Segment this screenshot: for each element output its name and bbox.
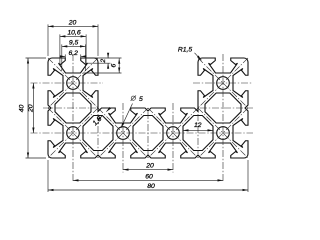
cell diagonal centerline 9 [98, 108, 148, 158]
hole d5 at (123,133) [117, 127, 130, 140]
hole d5 at (73,83) [67, 77, 80, 90]
cell diagonal centerline 1 [48, 58, 98, 108]
svg-text:10,6: 10,6 [67, 30, 80, 37]
cavity octagon (70,20) [205, 93, 241, 123]
svg-text:20: 20 [68, 20, 77, 27]
centerline horizontal y=83 right [193, 82, 253, 84]
centerline horizontal y=133 [31, 132, 254, 134]
svg-text:6,2: 6,2 [68, 50, 78, 57]
centerline horizontal y=108 left [43, 107, 96, 109]
svg-text:6: 6 [111, 63, 118, 67]
dimension 40 (height) [26, 57, 47, 59]
cavity octagon (60,30) [183, 116, 213, 151]
dimension 6 (slot depth) [83, 72, 122, 74]
dimension 1,8 (web thickness) [99, 116, 102, 119]
cell diagonal centerline 5 [48, 108, 98, 158]
dimension 20 (top tower width) [47, 24, 49, 56]
dimension 20 (bottom slot spacing) [123, 169, 173, 171]
centerline vertical x=148 [147, 112, 149, 156]
dimension 12 (cavity width) [183, 129, 213, 131]
dimension 80 [47, 160, 49, 192]
centerline vertical x=173 [172, 103, 174, 173]
svg-text:20: 20 [145, 163, 154, 170]
cell diagonal centerline 7 [198, 108, 248, 158]
profile outer contour with T-slots [48, 58, 248, 158]
svg-text:12: 12 [194, 122, 202, 129]
label R1,5 with leader [195, 53, 202, 61]
centerline horizontal y=108 right [200, 107, 253, 109]
cavity octagon (10,20) [55, 93, 91, 123]
centerline vertical x=73 [72, 54, 74, 182]
centerline horizontal y=83 left [31, 82, 104, 84]
svg-text:2: 2 [100, 59, 107, 64]
cell diagonal centerline 8 [198, 108, 248, 158]
svg-text:20: 20 [28, 104, 35, 113]
cell diagonal centerline 12 [148, 108, 198, 158]
cell diagonal centerline 4 [198, 58, 248, 108]
cell diagonal centerline 2 [48, 58, 98, 108]
centerline vertical x=198 [197, 114, 199, 154]
hole d5 at (223,83) [217, 77, 230, 90]
hole d5 at (223,133) [217, 127, 230, 140]
cell diagonal centerline 10 [98, 108, 148, 158]
dimension 60 [73, 179, 223, 181]
cell diagonal centerline 3 [198, 58, 248, 108]
dimension 20 (left slot spacing) [32, 83, 34, 133]
dimension 6,2 [64, 54, 66, 57]
cavity octagon (20,30) [83, 116, 113, 151]
dimension 9,5 [61, 44, 63, 71]
dimension 2 (lip depth) [87, 57, 122, 59]
svg-text:80: 80 [147, 183, 155, 190]
svg-text:60: 60 [145, 174, 153, 181]
svg-text:5: 5 [139, 96, 143, 103]
cell diagonal centerline 11 [148, 108, 198, 158]
cell diagonal centerline 6 [48, 108, 98, 158]
centerline vertical x=98 [97, 114, 99, 154]
svg-text:R1,5: R1,5 [178, 47, 193, 54]
cavity octagon (40,30) [133, 116, 163, 151]
svg-text:40: 40 [18, 105, 25, 113]
hole d5 at (73,133) [67, 127, 80, 140]
centerline vertical x=223 [222, 54, 224, 182]
hole d5 at (173,133) [167, 127, 180, 140]
centerline vertical x=123 [122, 103, 124, 173]
dimension 10,6 [59, 34, 61, 63]
svg-text:9,5: 9,5 [69, 40, 79, 47]
label diameter 5 with leader [121, 104, 133, 129]
